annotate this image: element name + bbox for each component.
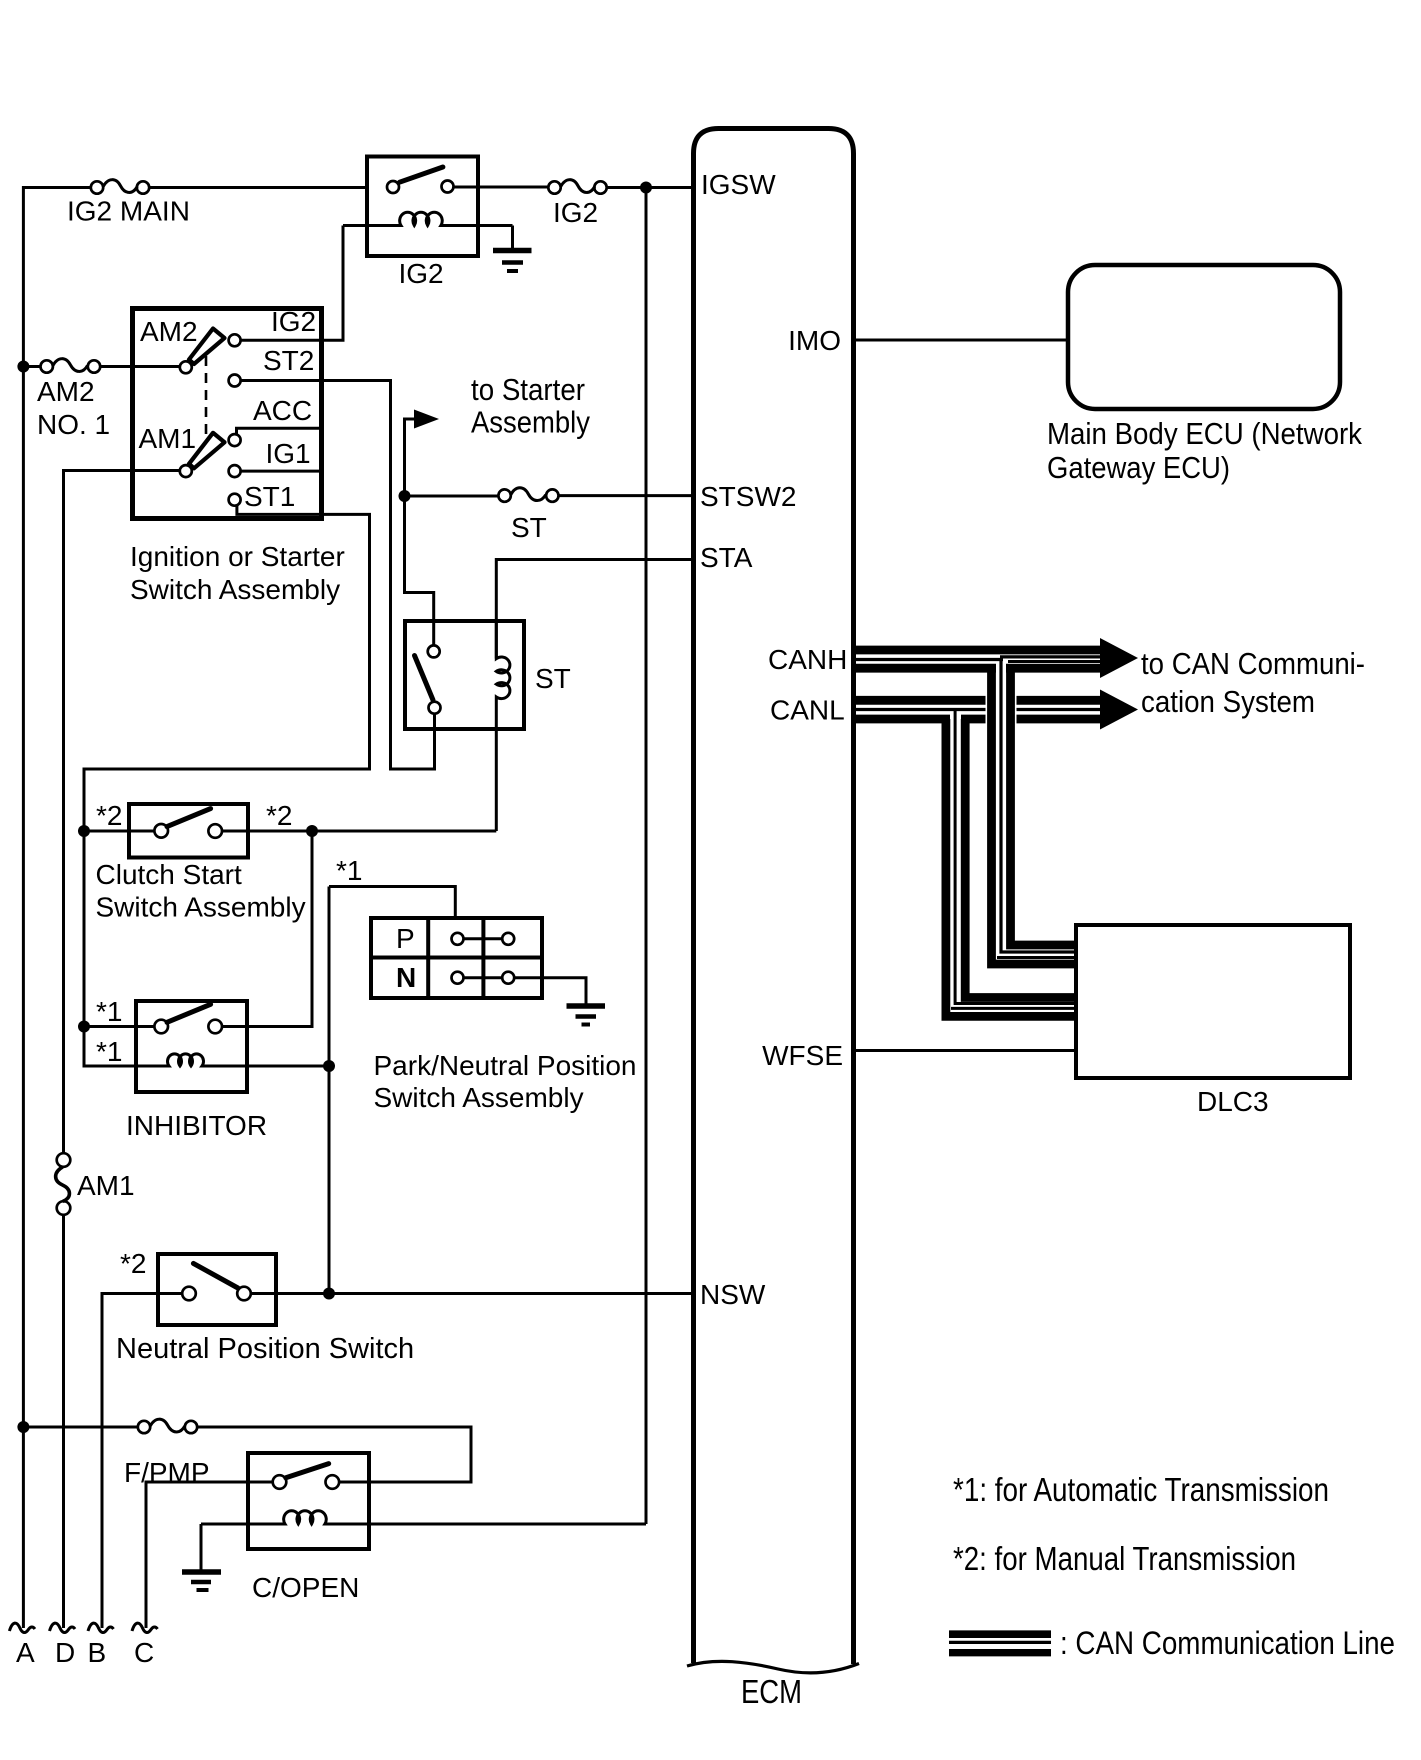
wire ST1 stub to clutch switch <box>84 505 370 1066</box>
CAN bus CANH line thin <box>854 657 1104 660</box>
svg-text:Neutral Position Switch: Neutral Position Switch <box>116 1333 414 1365</box>
svg-text:WFSE: WFSE <box>762 1040 843 1071</box>
svg-text:*1: *1 <box>336 855 362 886</box>
svg-text:Clutch Start: Clutch Start <box>96 859 242 890</box>
neutral switch contacts <box>182 1287 196 1301</box>
main body ECU box <box>1068 265 1340 409</box>
lever AM2 wedge <box>189 329 225 365</box>
clutch start switch assembly box <box>129 804 248 858</box>
wire ST2 stub <box>241 381 435 770</box>
svg-text:to CAN Communi-: to CAN Communi- <box>1141 646 1365 681</box>
CAN bus CANL line thin <box>854 708 1104 711</box>
fuse IG2 MAIN <box>91 180 149 194</box>
clutch switch lever <box>167 809 211 827</box>
wire IGSW branch vertical down to C/OPEN coil <box>645 188 648 1525</box>
connector break A <box>9 1623 35 1632</box>
relay IG2 coil <box>343 212 513 225</box>
wire N row to ground <box>514 978 586 1005</box>
halo white under CANH trunk <box>986 692 1017 726</box>
wire *1 net vertical <box>328 887 331 1294</box>
ECM bottom wave <box>687 1661 859 1672</box>
svg-text:AM1: AM1 <box>139 423 197 454</box>
CAN trunk CANH thin <box>1001 660 1076 953</box>
CAN trunk CANH thick right <box>1011 668 1077 945</box>
CAN bus CANL line thick top <box>854 696 1104 705</box>
svg-text:Switch Assembly: Switch Assembly <box>374 1082 584 1113</box>
relay IG2 box <box>367 157 478 257</box>
svg-text:Ignition or Starter: Ignition or Starter <box>130 541 345 572</box>
wire IG1 stub <box>241 470 322 473</box>
wire F/PMP net <box>23 1426 138 1429</box>
node STSW2 junction dot <box>399 490 411 502</box>
wire ST relay switch feed <box>405 496 434 645</box>
svg-text:IG2: IG2 <box>399 258 444 289</box>
svg-text:CANH: CANH <box>768 644 847 675</box>
wire inhibitor left <box>84 1025 155 1028</box>
svg-text:AM2: AM2 <box>140 316 198 347</box>
fuse ST <box>498 488 558 502</box>
svg-text:NO. 1: NO. 1 <box>37 409 110 440</box>
svg-text:IG2: IG2 <box>271 306 316 337</box>
wire IGSW net: fuse IG2 to ECM IGSW pin <box>607 186 693 189</box>
CAN trunk CANH thick left <box>992 668 1077 964</box>
DLC3 box <box>1076 925 1350 1078</box>
ground IG2 relay <box>493 226 532 272</box>
inhibitor relay box <box>136 1001 247 1092</box>
CAN trunk CANL thick left <box>946 719 1076 1016</box>
relay IG2 switch lever <box>400 167 443 182</box>
terminal ACC contact <box>229 434 241 446</box>
svg-text:*2: for Manual Transmission: *2: for Manual Transmission <box>953 1540 1296 1577</box>
svg-text:IMO: IMO <box>788 325 841 356</box>
svg-text:CANL: CANL <box>770 695 845 726</box>
connector break C <box>132 1623 158 1632</box>
node NSW junction dot <box>323 1288 335 1300</box>
node IGSW junction dot <box>640 182 652 194</box>
svg-text:*2: *2 <box>266 800 292 831</box>
arrow CANH <box>1100 638 1138 678</box>
svg-text:Assembly: Assembly <box>471 404 590 439</box>
wire STA net: ECM to ST relay coil <box>496 560 693 659</box>
relay C/OPEN box <box>248 1453 369 1549</box>
wire IMO net <box>854 339 1069 342</box>
wire ST coil bottom to clutch junction <box>222 830 497 833</box>
svg-text:Main Body ECU (Network: Main Body ECU (Network <box>1047 416 1362 451</box>
svg-text:Switch Assembly: Switch Assembly <box>130 574 340 605</box>
neutral switch lever <box>193 1263 238 1288</box>
terminal ST2 contact <box>229 375 241 387</box>
legend CAN symbol <box>949 1634 1051 1653</box>
svg-text:AM2: AM2 <box>37 376 95 407</box>
neutral position switch box <box>158 1254 276 1325</box>
svg-text:*2: *2 <box>120 1248 146 1279</box>
svg-text:C/OPEN: C/OPEN <box>252 1572 359 1603</box>
svg-text:cation System: cation System <box>1141 684 1315 719</box>
connector break B <box>88 1623 114 1632</box>
svg-text:AM1: AM1 <box>77 1170 135 1201</box>
svg-text:STA: STA <box>700 542 753 573</box>
node clutch right junction dot <box>306 825 318 837</box>
svg-text:: CAN Communication Line: : CAN Communication Line <box>1060 1625 1395 1661</box>
clutch switch contacts <box>154 824 168 838</box>
svg-text:IGSW: IGSW <box>701 169 776 200</box>
svg-text:P: P <box>396 923 415 954</box>
relay ST switch contacts <box>428 645 440 657</box>
svg-text:ST2: ST2 <box>263 345 314 376</box>
N row contacts <box>452 972 464 984</box>
relay ST switch lever <box>415 656 434 701</box>
node inhibitor coil junction dot <box>323 1060 335 1072</box>
svg-text:ECM: ECM <box>741 1673 802 1710</box>
wire IG2 relay coil to ignition switch IG2 contact <box>241 226 343 341</box>
svg-text:ST: ST <box>511 512 547 543</box>
node AM2 NO.1 tap dot <box>17 361 29 373</box>
inhibitor coil <box>84 1054 329 1066</box>
wire IGSW net: IG2 relay to fuse IG2 <box>454 186 549 189</box>
lever AM1 wedge <box>189 433 225 469</box>
svg-text:IG2 MAIN: IG2 MAIN <box>67 196 190 227</box>
relay ST coil vertical <box>496 621 510 831</box>
CAN DLC3 CANL extra thin <box>951 1007 1076 1010</box>
CAN DLC3 CANH extra thin <box>997 956 1076 959</box>
svg-text:IG2: IG2 <box>553 197 598 228</box>
terminal IG1 contact <box>229 465 241 477</box>
node inhibitor left dot <box>78 1021 90 1033</box>
ground P/N switch <box>567 1006 606 1025</box>
terminal AM1 contact <box>180 465 192 477</box>
svg-text:D: D <box>55 1637 75 1668</box>
wire C/OPEN switch left to connector C <box>146 1482 273 1628</box>
svg-text:NSW: NSW <box>700 1279 766 1310</box>
P row contacts <box>452 933 464 945</box>
svg-text:N: N <box>396 962 416 993</box>
svg-text:INHIBITOR: INHIBITOR <box>126 1110 267 1141</box>
wire battery feed top (A net) horizontal <box>23 188 91 1629</box>
svg-text:IG1: IG1 <box>266 438 311 469</box>
CAN bus CANH line thick bottom <box>854 664 1104 673</box>
svg-text:*1: *1 <box>96 996 122 1027</box>
svg-text:ACC: ACC <box>253 395 312 426</box>
terminal ST1 contact <box>229 494 241 506</box>
svg-text:Park/Neutral Position: Park/Neutral Position <box>374 1050 637 1081</box>
wire IGSW net: fuse IG2 MAIN to IG2 relay <box>149 186 367 189</box>
svg-text:*2: *2 <box>96 800 122 831</box>
fuse F/PMP <box>138 1419 197 1433</box>
svg-text:STSW2: STSW2 <box>700 481 796 512</box>
wire WFSE net <box>854 1049 1077 1052</box>
svg-text:ST1: ST1 <box>244 481 295 512</box>
P/N internal grid <box>371 918 542 998</box>
fuse AM2 NO.1 <box>23 359 180 373</box>
wire STSW2 fuse to ECM <box>559 494 694 497</box>
svg-text:B: B <box>88 1637 107 1668</box>
CAN bus CANH line thick top <box>854 646 1104 655</box>
svg-text:A: A <box>16 1637 35 1668</box>
ECM box <box>694 129 854 1665</box>
connector break D <box>50 1623 76 1632</box>
inhibitor switch contacts <box>154 1020 168 1034</box>
park/neutral position switch box <box>371 918 542 998</box>
inhibitor switch lever <box>167 1004 211 1022</box>
C/OPEN switch contacts <box>273 1475 287 1489</box>
node clutch left dot <box>78 825 90 837</box>
svg-text:Gateway ECU): Gateway ECU) <box>1047 450 1230 485</box>
fuse AM1 vertical <box>56 1153 71 1628</box>
ground C/OPEN <box>182 1524 221 1590</box>
relay IG2 switch contacts <box>387 181 399 193</box>
svg-text:*1: for Automatic Transmission: *1: for Automatic Transmission <box>953 1471 1329 1508</box>
CAN bus CANL line thick bottom <box>854 715 1104 724</box>
terminal IG2 contact <box>229 334 241 346</box>
svg-text:Switch Assembly: Switch Assembly <box>96 892 306 923</box>
terminal AM2 contact <box>180 361 192 373</box>
wire neutral left to connector B <box>102 1294 182 1629</box>
wire NSW net to ECM <box>251 1292 693 1295</box>
svg-text:C: C <box>134 1637 154 1668</box>
C/OPEN coil <box>201 1511 646 1524</box>
CAN trunk CANL thick right <box>965 719 1076 998</box>
wire F/PMP fuse to C/OPEN switch <box>197 1427 471 1482</box>
node F/PMP tap dot <box>17 1421 29 1433</box>
arrow CANL <box>1100 690 1138 730</box>
wire clutch left from ST1 net <box>84 830 155 833</box>
wire junction down to inhibitor switch <box>222 831 313 1027</box>
svg-text:DLC3: DLC3 <box>1197 1086 1269 1117</box>
wire STSW2 net: junction to fuse ST <box>405 495 499 498</box>
wire ACC stub <box>237 428 322 435</box>
fuse IG2 <box>548 180 606 194</box>
CAN trunk CANL thin <box>955 710 1076 1004</box>
svg-text:*1: *1 <box>96 1036 122 1067</box>
wire *1 net horizontal to P/N switch <box>329 887 455 919</box>
CAN bus CANH extra thin <box>1008 660 1103 663</box>
ignition or starter switch assembly box <box>133 309 322 519</box>
wire AM1 to fuse AM1 <box>64 471 181 1154</box>
svg-text:to Starter: to Starter <box>471 372 585 407</box>
svg-text:ST: ST <box>535 663 571 694</box>
relay ST box <box>405 621 524 729</box>
C/OPEN switch lever <box>286 1464 329 1478</box>
arrow to starter assembly <box>405 410 440 498</box>
mechanical link dashed <box>205 356 208 438</box>
